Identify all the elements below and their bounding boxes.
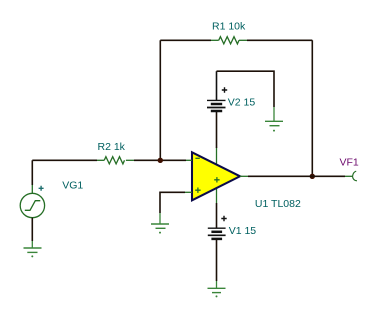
- generator VG1 waveform: [25, 201, 41, 211]
- terminal VF1 hook: [353, 171, 358, 181]
- svg-text:V2 15: V2 15: [228, 96, 256, 108]
- plus sign V2: [222, 87, 227, 92]
- pin U1 V- supply (green): [216, 188, 218, 203]
- pin U1 V+ supply (green): [216, 148, 218, 165]
- plus marker U1 positive supply: [214, 177, 219, 182]
- svg-text:VG1: VG1: [62, 180, 83, 192]
- svg-text:R1 10k: R1 10k: [212, 21, 246, 33]
- wire VG1 vertical: [31, 160, 33, 185]
- wire VG1 to ground: [31, 218, 33, 241]
- wire op-amp V- to V1: [216, 203, 218, 228]
- pin U1 inverting input (green): [186, 159, 192, 161]
- junction dot input node: [158, 158, 163, 163]
- pin U1 output (green): [240, 175, 248, 177]
- wire top feedback horizontal: [160, 39, 211, 41]
- svg-text:VF1: VF1: [340, 157, 359, 169]
- wire output horizontal: [248, 175, 345, 177]
- ground for V2: [265, 107, 283, 126]
- junction dot output node: [310, 174, 315, 179]
- wire non-inverting input to ground: [160, 192, 185, 213]
- pin U1 non-inverting input (green): [185, 191, 192, 193]
- resistor R2: [97, 157, 134, 164]
- battery V2: [207, 71, 226, 111]
- minus marker U1 inverting input: [195, 157, 199, 159]
- plus sign V1: [221, 216, 226, 221]
- wire V2 top loop to ground: [217, 71, 275, 107]
- op-amp U1 triangle: [192, 152, 240, 200]
- ground below V1: [208, 281, 226, 293]
- plus sign VG1 (teal): [39, 186, 44, 191]
- pin VF1 terminal lead (green): [345, 175, 352, 177]
- wire right feedback vertical: [311, 40, 313, 176]
- wire left feedback vertical: [159, 40, 161, 160]
- svg-text:R2 1k: R2 1k: [98, 141, 126, 153]
- wire input right segment to op-amp: [134, 159, 186, 161]
- generator VG1 circle: [20, 193, 44, 217]
- wire top feedback horizontal right of R1: [247, 39, 312, 41]
- wire V1 bottom to ground: [216, 239, 218, 281]
- ground at op-amp + input: [151, 213, 169, 228]
- wire input left segment from VG1 corner: [32, 159, 97, 161]
- svg-text:V1 15: V1 15: [229, 225, 257, 237]
- wire V2 bottom to op-amp V+: [216, 111, 218, 148]
- pin VG1 top (green): [31, 185, 33, 193]
- resistor R1: [211, 37, 247, 44]
- plus marker U1 non-inverting input: [195, 188, 200, 193]
- battery V1: [208, 228, 226, 239]
- svg-text:U1 TL082: U1 TL082: [255, 198, 301, 210]
- ground below VG1: [24, 241, 42, 252]
